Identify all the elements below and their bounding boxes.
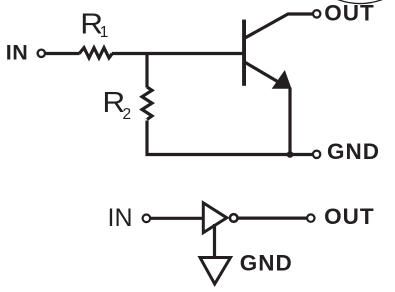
transistor Q1 collector wire to OUT [245,14,313,38]
transistor Q1 base bar [242,20,246,86]
terminal IN (top) [38,50,45,57]
svg-text:GND: GND [327,139,380,164]
svg-text:IN: IN [108,204,133,232]
ground symbol [200,258,231,285]
terminal GND (top) [313,151,320,158]
wire IN to buffer [151,217,204,220]
wire node A to R2 [145,54,148,88]
wire R1 to base (node A at x=147) [112,52,243,55]
wire buffer to ground symbol [213,224,216,258]
svg-text:IN: IN [6,40,29,64]
buffer U1 triangle [203,203,227,233]
label R2 [102,87,131,123]
svg-text:OUT: OUT [324,0,375,25]
arc fragment (cropped circle, top right) [338,0,383,4]
resistor R2 [142,87,152,120]
terminal IN (bottom) [143,215,151,223]
wire IN to R1 [46,52,80,55]
svg-text:1: 1 [100,24,109,41]
svg-text:GND: GND [240,251,293,276]
transistor Q1 emitter line [245,62,284,85]
terminal OUT (top) [313,10,320,17]
buffer U1 output bubble [230,214,238,222]
svg-text:OUT: OUT [324,204,375,229]
wire buffer to OUT [238,217,307,220]
resistor R1 [79,48,112,58]
transistor Q1 emitter arrow [272,70,292,89]
wire R2 to ground rail [147,121,312,155]
terminal OUT (bottom) [307,214,314,221]
svg-text:2: 2 [123,106,132,123]
wire emitter to ground rail [288,88,291,155]
label R1 [80,9,108,41]
junction dot emitter/ground rail [287,151,294,158]
